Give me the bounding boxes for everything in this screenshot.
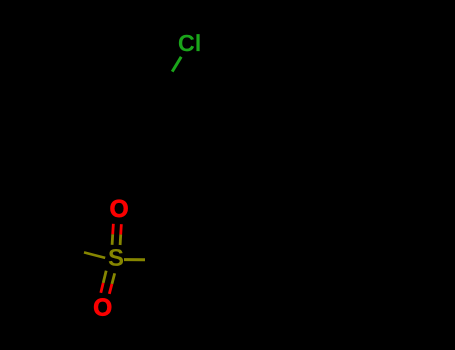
atom label Cl [179, 34, 200, 51]
bond S-CH3 (left methyl) [84, 252, 105, 258]
bond S-C (right) [124, 258, 145, 261]
double bond S=O upper, line 2 (olive half, S side) [119, 235, 122, 245]
double bond S=O lower, line 1 (red half, O side) [101, 283, 103, 293]
double bond S=O lower, line 1 (olive half, S side) [103, 271, 106, 283]
bond C-Cl [172, 57, 181, 72]
double bond S=O lower, line 2 (olive half, S side) [112, 273, 115, 284]
atom label S [109, 249, 123, 266]
double bond S=O lower, line 2 (red half, O side) [109, 284, 112, 294]
atom label O (top, sulfonyl) [111, 200, 128, 217]
double bond S=O upper, line 2 (red half, O side) [119, 224, 122, 234]
double bond S=O upper, line 1 (olive half, S side) [111, 234, 114, 245]
double bond S=O upper, line 1 (red half, O side) [111, 224, 114, 235]
atom label O (bottom, sulfonyl) [94, 298, 111, 315]
